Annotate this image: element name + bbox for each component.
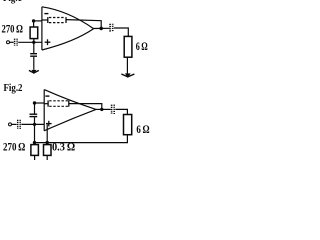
wire (capacitor to load corner, Fig.2) [115, 109, 127, 114]
minus sign (Fig.1) [44, 13, 48, 15]
node dot (inverting node, Fig.1) [32, 19, 35, 22]
dashed resistor (internal feedback, Fig.2) [45, 103, 48, 105]
wire (op-amp output, Fig.2) [96, 108, 111, 110]
input terminal (Fig.1) [7, 41, 10, 44]
wire (node to op-amp minus) [34, 20, 42, 22]
capacitor C6 (output coupling, Fig.2) [111, 105, 113, 114]
svg-text:270 Ω: 270 Ω [3, 142, 25, 154]
wire (R3 to bottom edge) [34, 155, 36, 160]
wire (dot to resistor top) [33, 21, 35, 27]
resistor R3 270 ohm (Fig.2) [31, 145, 39, 156]
minus sign (Fig.2) [45, 95, 49, 97]
svg-text:0.3 Ω: 0.3 Ω [52, 141, 75, 153]
wire (plus node down to rail) [46, 124, 48, 144]
capacitor C3 (output coupling, Fig.1) [109, 24, 111, 32]
plus sign (Fig.2) [46, 123, 52, 125]
op-amp U2 triangle (Fig.2) [43, 90, 45, 131]
wire (op-amp output, Fig.1) [93, 27, 109, 29]
output node dot (Fig.2) [100, 108, 103, 111]
capacitor C4 (input coupling, Fig.2) [17, 120, 19, 129]
wire (R4 to bottom edge) [46, 155, 48, 160]
wire (resistor bottom to return rail, Fig.2) [35, 135, 128, 143]
svg-text:Fig.2: Fig.2 [4, 83, 23, 94]
wire (capacitor up to minus node) [34, 103, 36, 114]
plus sign (Fig.1) [45, 41, 51, 43]
capacitor C2 (shunt, Fig.1) [30, 53, 37, 55]
node dot (rail at R3, Fig.2) [33, 141, 36, 144]
wire [21, 123, 44, 125]
resistor R5 6 ohm (Fig.2) [124, 115, 132, 135]
wire (resistor to ground, Fig.1) [126, 57, 128, 74]
wire [10, 41, 14, 43]
svg-text:6 Ω: 6 Ω [136, 41, 148, 53]
wire (node A down to rail) [34, 124, 36, 144]
wire [12, 123, 17, 125]
ground (Fig.1 left) [29, 70, 39, 73]
svg-text:Fig.1: Fig.1 [3, 0, 22, 4]
resistor R4 0.3 ohm (Fig.2) [44, 145, 52, 156]
capacitor C5 (shunt, Fig.2) [30, 116, 38, 118]
capacitor C1 (input coupling, Fig.1) [14, 39, 16, 46]
wire (input node down to capacitor) [33, 42, 35, 53]
input terminal (Fig.2) [9, 123, 12, 126]
resistor R1 270 ohm (Fig.1) [30, 27, 38, 39]
wire [18, 41, 42, 43]
resistor R2 6 ohm (Fig.1) [124, 36, 132, 57]
node dot (rail at R4, Fig.2) [46, 141, 49, 144]
ground (Fig.1 right) [121, 74, 134, 77]
node dot (inverting node, Fig.2) [33, 101, 36, 104]
svg-text:6 Ω: 6 Ω [136, 124, 149, 136]
node A dot (input node, Fig.2) [33, 123, 36, 126]
wire (capacitor to ground) [33, 57, 35, 70]
svg-text:270 Ω: 270 Ω [2, 24, 23, 36]
dashed resistor (internal feedback, Fig.1) [42, 19, 47, 21]
wire (capacitor to load corner, Fig.1) [114, 28, 128, 36]
output node dot (Fig.1) [99, 27, 103, 31]
feedback wire (Fig.2) [69, 104, 102, 110]
op-amp U1 triangle (Fig.1) [41, 7, 43, 50]
node dot (input node, Fig.1) [32, 41, 35, 44]
wire (resistor bottom to input wire) [33, 39, 35, 43]
wire (node to op-amp minus) [35, 102, 45, 104]
wire (node A up to shunt capacitor) [34, 117, 36, 124]
feedback wire (Fig.1) [66, 20, 101, 29]
